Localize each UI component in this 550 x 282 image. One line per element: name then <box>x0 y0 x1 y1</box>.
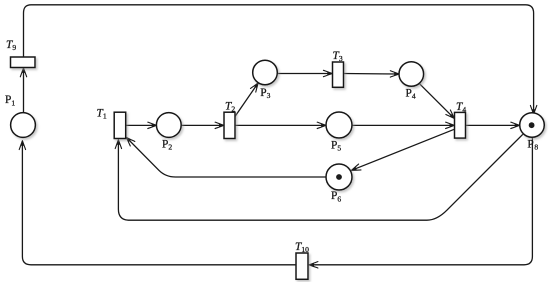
wire P4 to T4 <box>420 84 455 119</box>
svg-text:P8: P8 <box>527 139 538 152</box>
label T1 <box>97 108 107 121</box>
label P6 <box>331 190 341 203</box>
label P2 <box>162 138 172 151</box>
svg-text:T9: T9 <box>6 39 16 52</box>
wire P2 to T2 <box>181 124 223 126</box>
wire T10 to P1 <box>22 141 295 265</box>
svg-text:P4: P4 <box>406 87 416 100</box>
wire P3 to T3 <box>277 73 332 75</box>
label T2 <box>225 100 235 113</box>
wire T2 to P3 <box>235 83 258 116</box>
svg-text:P5: P5 <box>331 139 341 152</box>
wire T9 to P8 (top loop) <box>24 5 534 114</box>
wire P6 to T1 (curved left) <box>127 138 326 177</box>
label P8 <box>527 139 538 152</box>
label P3 <box>260 87 270 100</box>
label P1 <box>5 94 15 107</box>
place P3 <box>253 60 278 85</box>
svg-text:T1: T1 <box>97 108 107 121</box>
wire P8 to T10 <box>309 137 532 264</box>
label T3 <box>333 50 343 63</box>
label T4 <box>456 101 466 114</box>
place P1 <box>11 113 36 138</box>
svg-text:P3: P3 <box>260 87 270 100</box>
label T9 <box>6 39 16 52</box>
place P4 <box>399 62 424 87</box>
transition T4 <box>455 112 466 138</box>
label T10 <box>295 241 309 254</box>
wire T4 to P6 <box>352 129 455 170</box>
transition T2 <box>224 112 235 138</box>
transition T1 <box>114 112 126 138</box>
svg-text:T2: T2 <box>225 100 235 113</box>
svg-text:P1: P1 <box>5 94 15 107</box>
place P6 <box>326 164 352 190</box>
label P4 <box>406 87 416 100</box>
token in P8 <box>529 122 535 128</box>
label P5 <box>331 139 341 152</box>
transition T3 <box>333 62 344 87</box>
transition T10 <box>296 253 308 279</box>
wire T2 to P5 <box>235 124 326 126</box>
place P5 <box>326 112 352 138</box>
wire T4 to P8 <box>466 124 520 126</box>
token in P6 <box>336 174 342 180</box>
place P2 <box>156 113 181 138</box>
wire T3 to P4 <box>344 73 399 76</box>
svg-text:P6: P6 <box>331 190 341 203</box>
wire P8 to T1 (bottom inner loop) <box>118 134 523 220</box>
wire P1 to T9 <box>23 68 25 112</box>
place P8 <box>520 113 545 138</box>
svg-text:T4: T4 <box>456 101 466 114</box>
svg-text:P2: P2 <box>162 138 172 151</box>
wire T1 to P2 <box>126 124 157 126</box>
svg-text:T3: T3 <box>333 50 343 63</box>
svg-text:T10: T10 <box>295 241 309 254</box>
wire P5 to T4 <box>352 124 454 126</box>
transition T9 <box>11 57 36 68</box>
